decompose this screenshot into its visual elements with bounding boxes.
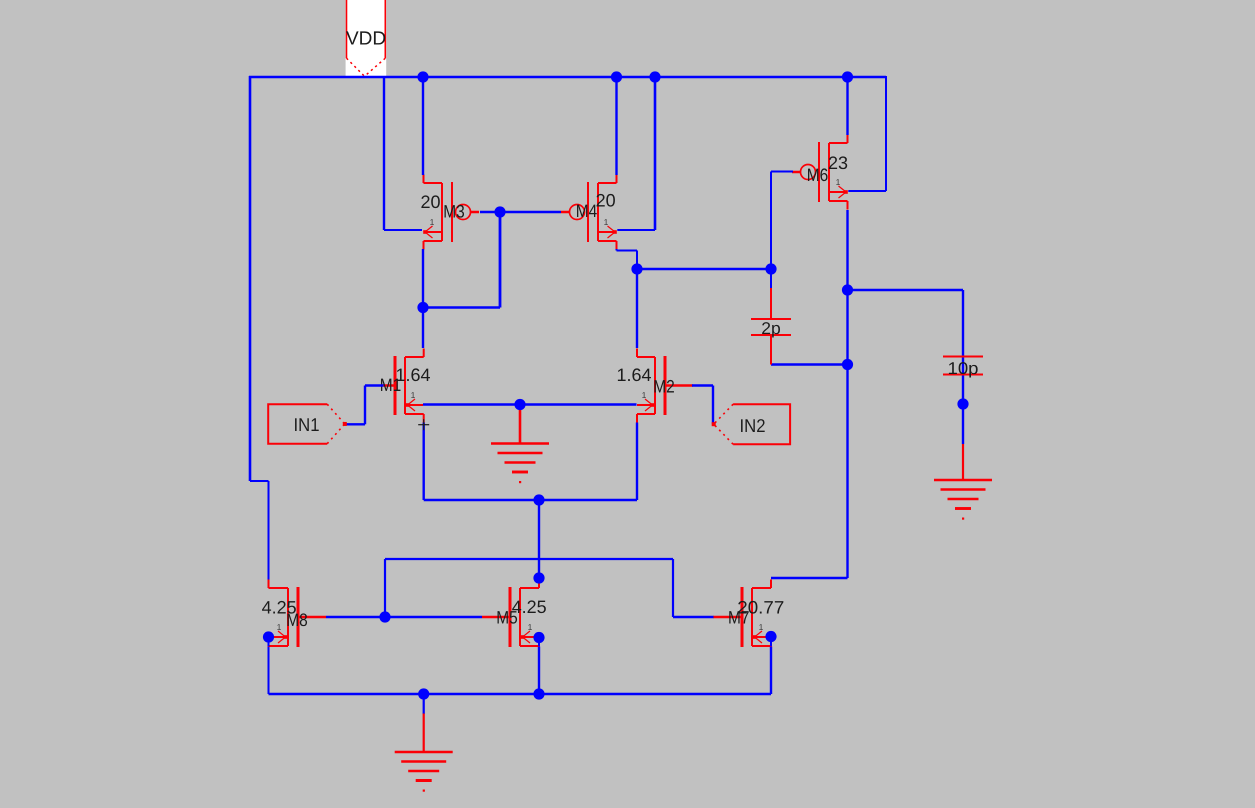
wire tail rail: [424, 499, 637, 501]
node first stage output: [631, 263, 642, 274]
transistor M6 (PMOS): [792, 135, 848, 210]
svg-text:20: 20: [596, 191, 616, 211]
wire output to 10p: [848, 289, 964, 291]
svg-text:2p: 2p: [761, 319, 781, 338]
wire M8 gate to bias node: [326, 616, 385, 618]
wire M3 drain to M1 drain: [422, 249, 424, 348]
node M5 source: [533, 688, 544, 699]
wire M8 bulk link: [268, 637, 270, 646]
wire IN2 to M2 gate: [713, 423, 715, 425]
transistor M5 (NMOS): [482, 580, 539, 655]
node M3 drain tie: [417, 302, 428, 313]
node input pair bulk: [514, 399, 525, 410]
wire tail to M5 drain: [538, 500, 540, 578]
transistor M2 (NMOS): [637, 349, 693, 423]
wire M7 drain: [771, 577, 848, 579]
svg-text:4.25: 4.25: [512, 597, 547, 617]
node M7 bulk: [765, 631, 776, 642]
wire gate tie down: [499, 212, 502, 308]
wire M2 source down: [636, 423, 638, 501]
wire VDD to M3 bulk: [383, 76, 385, 230]
svg-text:10p: 10p: [948, 359, 979, 378]
svg-text:IN2: IN2: [740, 415, 766, 436]
transistor M3 (PMOS): [423, 175, 479, 250]
VDD supply pin: [346, 0, 387, 77]
svg-text:1: 1: [411, 390, 416, 400]
wire IN1 to M1 gate: [344, 423, 365, 425]
node bottom rail ground: [418, 688, 429, 699]
wire M4 bulk to rail: [654, 76, 657, 230]
node bias gates: [379, 611, 390, 622]
svg-text:M2: M2: [653, 377, 675, 397]
wire M5 source down: [538, 647, 540, 695]
wire M8 source down: [268, 647, 270, 695]
node output/2p: [842, 359, 853, 370]
node M6 gate/2p: [765, 263, 776, 274]
node output/10p: [842, 284, 853, 295]
node M3/M4 gates: [494, 206, 505, 217]
ground stem (input pair bulk): [519, 407, 522, 444]
wire M3/M4 gate tie: [480, 211, 561, 213]
svg-text:1: 1: [759, 622, 764, 632]
transistor M7 (NMOS): [713, 580, 771, 655]
wire bottom rail: [269, 693, 772, 695]
wire M7 source down: [770, 647, 772, 695]
node VDD-M4 source: [611, 71, 622, 82]
node VDD-M6 source: [842, 71, 853, 82]
capacitor C1 2p: [751, 319, 791, 335]
svg-text:1: 1: [604, 217, 609, 227]
svg-text:VDD: VDD: [346, 29, 386, 50]
wire output vertical: [846, 210, 848, 578]
node VDD-M3 source: [417, 71, 428, 82]
svg-text:M3: M3: [443, 202, 465, 222]
transistor M1 (NMOS): [383, 349, 424, 423]
wire bias left drop: [384, 559, 386, 617]
svg-text:1: 1: [430, 217, 435, 227]
node M5 drain: [533, 572, 544, 583]
wire 2p bottom to output: [771, 363, 848, 365]
svg-text:IN1: IN1: [294, 414, 320, 435]
wire VDD rail right drop to M6 bulk: [885, 76, 887, 191]
wire bias node to M5 gate: [385, 616, 482, 618]
ground symbol (bottom rail): [395, 752, 453, 792]
wire left VDD bus down: [249, 76, 252, 481]
node tail: [533, 494, 544, 505]
wire 2p top lead: [770, 269, 772, 289]
ground stem (bottom rail): [423, 714, 425, 753]
svg-text:20.77: 20.77: [737, 598, 784, 618]
svg-text:1: 1: [277, 622, 282, 632]
node VDD-M4 bulk: [649, 71, 660, 82]
wire M4 source to rail: [615, 76, 617, 175]
wire M4 drain jog: [616, 249, 618, 251]
wire M1 source down: [423, 423, 425, 501]
node M8 bulk: [263, 631, 274, 642]
wire bottom rail to ground: [423, 694, 425, 714]
cell center marker: [418, 424, 429, 426]
svg-text:1.64: 1.64: [396, 365, 431, 385]
wire M6 gate riser: [770, 172, 772, 270]
svg-text:1: 1: [528, 622, 533, 632]
input pin IN1: [268, 404, 347, 444]
capacitor C2 10p: [943, 357, 983, 375]
transistor M4 (PMOS): [561, 175, 617, 250]
wire bias right drop: [672, 559, 674, 617]
wire bias rail: [385, 558, 673, 560]
svg-text:1.64: 1.64: [617, 365, 652, 385]
wire M7 bulk link: [770, 637, 772, 647]
node 10p bottom: [957, 398, 968, 409]
2p top lead (red): [770, 288, 772, 319]
ground symbol (input pair bulk): [491, 444, 549, 484]
node M5 bulk: [533, 632, 544, 643]
svg-text:M6: M6: [807, 165, 829, 185]
wire M3 source to rail: [422, 76, 424, 175]
2p bottom lead (red): [770, 335, 772, 365]
svg-text:1: 1: [642, 390, 647, 400]
wire M5 bulk link: [538, 638, 540, 647]
ground symbol (10p load): [934, 480, 992, 520]
wire M1/M2 bulk to ground: [423, 403, 637, 405]
wire VDD top rail: [249, 76, 886, 78]
VDD stem tick: [363, 0, 366, 4]
svg-text:M4: M4: [576, 201, 598, 221]
wire node to 2p/M6 gate: [637, 268, 771, 270]
transistor M8 (NMOS): [269, 580, 327, 655]
ground stem (10p): [962, 444, 964, 480]
svg-text:1: 1: [836, 177, 841, 187]
wire M6 source to rail: [846, 76, 848, 135]
svg-text:20: 20: [420, 192, 440, 212]
svg-text:23: 23: [828, 153, 848, 173]
svg-text:4.25: 4.25: [262, 598, 297, 618]
wire M2 drain to node: [636, 269, 638, 348]
wire left bus jog: [250, 480, 269, 482]
input pin IN2: [712, 404, 790, 444]
